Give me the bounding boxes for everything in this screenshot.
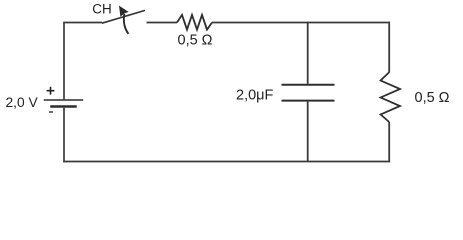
svg-text:CH: CH [92,1,112,16]
wire: top-left horizontal (corner to switch hinge) [63,22,102,24]
wire: bottom horizontal (full width, with C1 branch T junction) [63,161,390,163]
switch CH motion arc [124,14,129,34]
wire: switch fixed contact to resistor R1 [147,22,178,24]
resistor R2 (right, 0,5 ohm) zigzag [381,72,400,122]
battery B1 short (-) plate [50,105,76,107]
battery B1 long (+) plate [44,99,83,101]
capacitor C1 top plate [282,84,335,86]
battery B1 minus mark [49,111,53,113]
wire: left vertical (top corner down to battery + plate) [63,23,65,100]
svg-text:2,0μF: 2,0μF [236,88,274,104]
wire: right vertical bottom (R2 to bottom-right corner) [388,122,390,162]
capacitor C1 bottom plate [282,100,335,102]
switch CH arrowhead [119,6,129,17]
wire: capacitor C1 branch, top segment (top wire T junction down to plate) [307,22,309,84]
wire: resistor R1 to top-right corner (passes capacitor tap node) [212,22,390,24]
battery B1 plus mark [47,87,55,95]
resistor R1 (top, 0,5 ohm) zigzag [177,15,212,30]
switch CH blade [102,10,145,23]
svg-text:0,5 Ω: 0,5 Ω [415,90,450,106]
wire: capacitor C1 branch, bottom segment (plate down to bottom wire) [307,102,309,162]
wire: battery (-) down to bottom-left corner [63,108,65,163]
wire: right vertical top (corner down to resistor R2) [388,22,390,72]
svg-text:0,5 Ω: 0,5 Ω [178,33,213,49]
svg-text:2,0 V: 2,0 V [6,95,39,110]
